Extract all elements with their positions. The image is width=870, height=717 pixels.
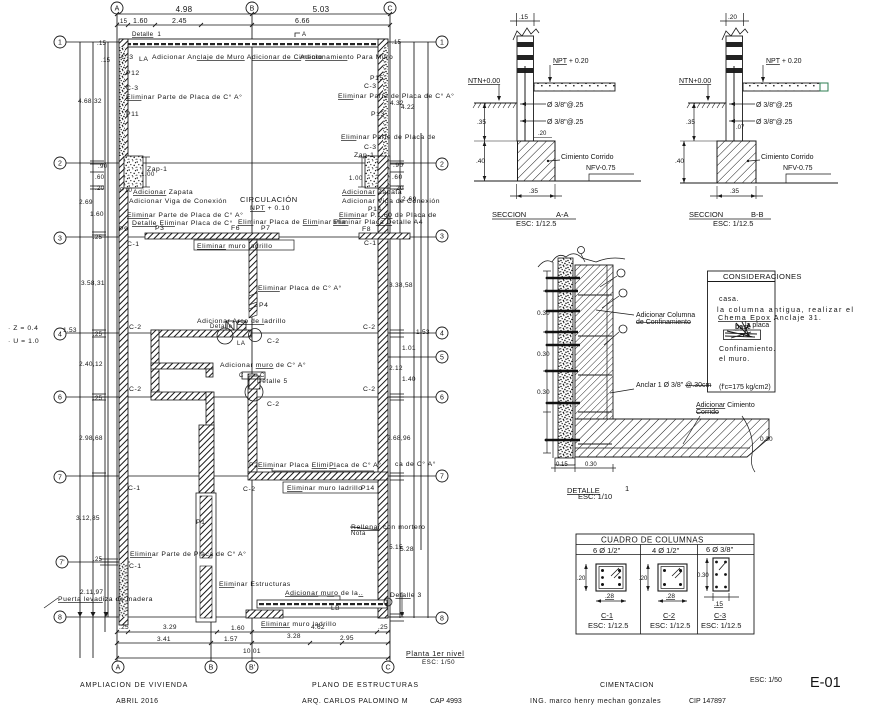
svg-text:Detalle 5: Detalle 5 (257, 378, 288, 385)
svg-text:.25: .25 (93, 332, 103, 338)
masonry bands (726, 42, 743, 47)
svg-text:3.38,58: 3.38,58 (389, 282, 413, 289)
svg-text:C-2: C-2 (129, 324, 142, 331)
svg-text:7: 7 (58, 475, 62, 482)
P1 inner hatch bottom (200, 566, 212, 618)
svg-text:Eliminar Placa ElimiPlaca de C: Eliminar Placa ElimiPlaca de C° A° (258, 461, 382, 469)
svg-text:Ø 3/8"@.25: Ø 3/8"@.25 (547, 102, 584, 109)
E-wall middle stub down (206, 369, 213, 377)
svg-text:2: 2 (440, 162, 444, 169)
svg-text:1: 1 (58, 40, 62, 47)
svg-text:6.66: 6.66 (295, 18, 310, 25)
grid line 4 (66, 332, 436, 334)
svg-text:Eliminar muro ladrillo: Eliminar muro ladrillo (287, 485, 363, 492)
svg-text:.07: .07 (736, 125, 745, 131)
dim tick cluster right grid7 (390, 473, 404, 480)
grid bubble 3 right (436, 230, 448, 242)
svg-text:NTN+0.00: NTN+0.00 (679, 78, 711, 85)
svg-text:C-1: C-1 (129, 563, 142, 570)
svg-text:LA: LA (139, 56, 148, 63)
dim .35 bottom (516, 184, 518, 199)
right dim chain vertical x430 (427, 42, 429, 618)
dark wall core top-right (383, 47, 388, 156)
svg-text:.20: .20 (95, 186, 105, 192)
E-wall left vertical (151, 330, 159, 398)
svg-text:5.03: 5.03 (313, 5, 330, 14)
grid bubble 7' left (56, 556, 68, 568)
leader line right of beam grid8 (401, 592, 403, 617)
svg-text:2.95: 2.95 (340, 635, 354, 642)
svg-text:.15: .15 (97, 41, 107, 47)
svg-text:0.15: 0.15 (556, 462, 568, 468)
svg-text:Eliminar muro ladrillo: Eliminar muro ladrillo (261, 621, 337, 628)
dim tick cluster right grid4 (390, 330, 404, 337)
E-wall bottom beam (151, 392, 213, 400)
svg-text:Detalle 1: Detalle 1 (132, 31, 161, 38)
rebar tie arrows (520, 103, 546, 105)
grid line 1 (66, 41, 436, 43)
svg-text:ESC: 1/50: ESC: 1/50 (422, 659, 455, 666)
svg-text:Adicionar Viga de Conexión: Adicionar Viga de Conexión (342, 198, 440, 205)
svg-text:.15: .15 (101, 58, 111, 64)
footing (518, 141, 556, 181)
slab green end (820, 83, 828, 91)
svg-text:0.30: 0.30 (585, 462, 597, 468)
svg-text:Adicionar Zapata: Adicionar Zapata (342, 189, 402, 196)
svg-text:3: 3 (58, 236, 62, 243)
ground wavy line top (538, 254, 625, 267)
bottom ground line (680, 182, 838, 184)
box around eliminar muro ladrillo grid3 (194, 240, 294, 250)
C-3 rect (713, 558, 729, 591)
grid line 6 (66, 396, 436, 398)
bottom ground line (474, 180, 641, 182)
svg-text:de Confinamiento: de Confinamiento (636, 319, 691, 326)
interior wall B upper (249, 239, 257, 310)
rebar end dots (545, 277, 549, 442)
grid bubble B top (246, 2, 258, 14)
dim ticks bottom rows (115, 630, 390, 660)
svg-text:Eliminar Placa de C° A°: Eliminar Placa de C° A° (258, 284, 342, 292)
grid line 7' left (68, 561, 130, 563)
grid bubble 1 left (54, 36, 66, 48)
svg-text:Cimiento Corrido: Cimiento Corrido (561, 154, 614, 161)
svg-text:.20: .20 (577, 576, 586, 582)
grid bubble 6 right (436, 391, 448, 403)
svg-text:casa.: casa. (719, 296, 739, 303)
svg-text:.60: .60 (392, 174, 403, 181)
svg-text:.20: .20 (538, 131, 547, 137)
dark wall core top-left (120, 47, 126, 156)
svg-text:P4: P4 (259, 302, 268, 309)
zapata Zap-1 right (stippled) (365, 156, 390, 188)
P1 column rect (196, 493, 216, 622)
dim .40 (683, 141, 685, 183)
grid bubble B' bottom (246, 661, 258, 673)
svg-text:CIP 147897: CIP 147897 (689, 698, 726, 705)
grid line 7 (66, 475, 436, 477)
svg-text:Eliminar Parte de Placa de C°: Eliminar Parte de Placa de C° A° (130, 550, 246, 558)
svg-text:1.60: 1.60 (133, 18, 148, 25)
bottom dim line row2 (117, 642, 390, 644)
slab (534, 83, 615, 91)
rebar bars (546, 278, 580, 440)
svg-text:Detalle 3: Detalle 3 (390, 592, 422, 599)
svg-text:Ø 3/8"@.25: Ø 3/8"@.25 (756, 102, 793, 109)
svg-text:Puerta levadiza de madera: Puerta levadiza de madera (58, 596, 153, 603)
svg-text:2.68,96: 2.68,96 (387, 435, 411, 442)
svg-text:C-2: C-2 (243, 486, 256, 493)
grid bubble 5 right (436, 351, 448, 363)
svg-text:6 Ø 1/2": 6 Ø 1/2" (593, 546, 621, 555)
svg-text:Nota: Nota (351, 531, 366, 537)
svg-text:2.40,12: 2.40,12 (79, 361, 103, 368)
interior wall B lower (248, 374, 257, 472)
svg-text:ESC: 1/12.5: ESC: 1/12.5 (516, 219, 556, 228)
dark wall overlay bottom-left (120, 563, 128, 617)
svg-text:3.58,31: 3.58,31 (81, 280, 105, 287)
C-2 dims (647, 564, 649, 591)
left outer wall (119, 39, 128, 625)
anchor lines in column (578, 295, 612, 444)
bottom dim line row1 (117, 631, 390, 633)
dim tick cluster left grid6 (92, 394, 106, 400)
wall over right zapata (378, 156, 388, 188)
svg-text:B': B' (249, 665, 255, 672)
P4 hatch marks (249, 293, 257, 318)
svg-text:4.68,32: 4.68,32 (78, 98, 102, 105)
door arc bottom left (44, 598, 58, 608)
svg-text:.35: .35 (686, 119, 695, 126)
svg-text:2.11,97: 2.11,97 (80, 589, 103, 596)
svg-text:ESC: 1/12.5: ESC: 1/12.5 (650, 621, 690, 630)
svg-text:C-1: C-1 (364, 240, 377, 247)
grid bubble 6 left (54, 391, 66, 403)
svg-text:ESC: 1/12.5: ESC: 1/12.5 (701, 621, 741, 630)
svg-text:LA: LA (237, 341, 245, 347)
svg-text:Adicionar Cimiento: Adicionar Cimiento (696, 402, 755, 409)
svg-text:1.60: 1.60 (90, 211, 104, 218)
right dim chain vertical x397 (399, 42, 401, 618)
svg-text:ESC: 1/10: ESC: 1/10 (578, 492, 612, 501)
grid bubble labels (58, 6, 444, 672)
existing wall stipple (558, 258, 573, 458)
svg-text:ABRIL 2016: ABRIL 2016 (116, 698, 159, 705)
svg-text:4: 4 (440, 331, 444, 338)
grid bubble 7 right (436, 470, 448, 482)
grid bubble A bottom (112, 661, 124, 673)
svg-text:̰b̰a̰s̰e: ̰b̰a̰s̰e (733, 324, 751, 331)
svg-text:Eliminar Parte de Placa de: Eliminar Parte de Placa de (341, 134, 436, 141)
svg-text:Cimiento Corrido: Cimiento Corrido (761, 154, 814, 161)
svg-text:Detalle Eliminar Placa de C°: Detalle Eliminar Placa de C° (132, 219, 233, 227)
svg-text:.35: .35 (730, 188, 739, 195)
svg-text:3.28: 3.28 (287, 633, 301, 640)
svg-text:3.41: 3.41 (157, 636, 171, 643)
dim ticks top rows (115, 12, 392, 27)
svg-text:ESC: 1/12.5: ESC: 1/12.5 (588, 621, 628, 630)
svg-text:· Z = 0.4: · Z = 0.4 (8, 325, 38, 332)
svg-text:.28: .28 (666, 593, 675, 600)
grid bubble 1 right (436, 36, 448, 48)
svg-text:Rellenar con mortero: Rellenar con mortero (351, 524, 425, 531)
svg-text:5: 5 (440, 355, 444, 362)
svg-text:ING. marco henry mechan gonzal: ING. marco henry mechan gonzales (530, 698, 661, 705)
svg-text:Adicionar muro de la..: Adicionar muro de la.. (285, 590, 363, 597)
svg-text:.15: .15 (392, 40, 402, 46)
wall break squiggle (722, 28, 748, 40)
rebar line in wall (733, 66, 735, 160)
svg-text:B: B (250, 6, 255, 13)
svg-text:Eliminar P.1.60 de Placa de: Eliminar P.1.60 de Placa de (339, 212, 437, 219)
svg-text:1.01: 1.01 (402, 345, 416, 352)
svg-text:P3: P3 (155, 225, 164, 232)
svg-text:F8: F8 (362, 226, 371, 233)
svg-text:.90: .90 (393, 162, 404, 169)
footing L hatched (575, 419, 769, 457)
box around eliminar muro grid7 (283, 482, 378, 493)
interior wall B' vertical lower wide part (199, 425, 214, 493)
svg-text:C-3: C-3 (714, 611, 726, 620)
svg-text:Chema Epox Anclaje 31.: Chema Epox Anclaje 31. (718, 313, 822, 322)
grid bubble 7 left (54, 471, 66, 483)
grid line A vertical (116, 14, 118, 661)
svg-text:E-01: E-01 (810, 675, 841, 691)
svg-text:6: 6 (58, 395, 62, 402)
svg-text:1.00: 1.00 (349, 176, 363, 182)
svg-text:CAP 4993: CAP 4993 (430, 698, 462, 705)
top dim line row2 (117, 24, 390, 26)
grid bubble 3 left (54, 232, 66, 244)
C-1 dims (585, 564, 587, 591)
svg-text:SECCION: SECCION (689, 210, 723, 219)
right outer wall (378, 39, 388, 618)
detail circle cluster at detalle5 (242, 372, 265, 401)
svg-text:Adicionar muro de C° A°: Adicionar muro de C° A° (220, 361, 306, 369)
svg-text:NPT + 0.10: NPT + 0.10 (250, 205, 290, 212)
beam grid3 left segment (145, 233, 279, 239)
svg-text:.25: .25 (93, 557, 103, 563)
bottom dim 0.15 0.30 (551, 467, 616, 469)
svg-text:10,01: 10,01 (243, 648, 261, 655)
right dim chain vertical x421 (420, 133, 422, 550)
svg-text:ESC: 1/50: ESC: 1/50 (750, 677, 782, 684)
svg-text:.40: .40 (675, 158, 684, 165)
svg-text:.28: .28 (605, 593, 614, 600)
svg-text:F6: F6 (231, 225, 240, 232)
zapata Zap-1 left (stippled) (124, 156, 143, 188)
svg-text:C-2: C-2 (363, 386, 376, 393)
svg-text:4: 4 (58, 332, 62, 339)
svg-text:Ø 3/8"@.25: Ø 3/8"@.25 (547, 119, 584, 126)
svg-text:LB: LB (331, 605, 340, 612)
svg-text:AMPLIACION DE VIVIENDA: AMPLIACION DE VIVIENDA (80, 682, 188, 689)
dim tick cluster left grid3 (92, 232, 106, 235)
grid line C vertical (389, 14, 391, 661)
rebar tie arrows (729, 103, 755, 105)
dim tick cluster right grid8 (390, 614, 404, 621)
svg-text:1.53: 1.53 (63, 327, 77, 334)
svg-text:Adicionar Anclaje de Muro Adic: Adicionar Anclaje de Muro Adicionar de C… (152, 54, 323, 61)
beam hatched small grid8 (246, 610, 283, 618)
dim tick cluster 7' (100, 559, 118, 565)
svg-text:1.60: 1.60 (231, 625, 245, 632)
dim tick cluster right grid6 (390, 394, 404, 400)
svg-text:.20: .20 (728, 14, 737, 21)
bottom dim line row3 (117, 657, 390, 659)
left dim chain vertical x105 (104, 42, 106, 632)
top dim line row1 (117, 13, 390, 15)
grid line 3 (66, 236, 436, 238)
svg-text:P14: P14 (361, 485, 375, 492)
right dim chain vertical x411 (413, 42, 415, 618)
svg-text:8: 8 (440, 616, 444, 623)
beam near grid8 (dashed) (257, 600, 387, 608)
svg-text:C: C (385, 665, 390, 672)
grid bubble C top (384, 2, 396, 14)
svg-text:P13: P13 (371, 111, 385, 118)
svg-text:.15: .15 (714, 601, 723, 608)
svg-text:.40: .40 (476, 158, 485, 165)
left dim chain vertical x108 (107, 42, 109, 617)
dim tick cluster left zapata (90, 161, 104, 189)
svg-text:P9: P9 (119, 226, 128, 233)
zapata left dim line 1.00 (142, 157, 150, 187)
dim .35 bottom (716, 186, 718, 199)
interior wall B' vertical lower (206, 392, 214, 432)
left dim chain 0.30s (546, 271, 548, 453)
svg-text:0.30: 0.30 (537, 351, 550, 358)
svg-text:8: 8 (58, 615, 62, 622)
svg-text:Eliminar Parte de Placa de C°: Eliminar Parte de Placa de C° A° (126, 93, 242, 101)
wall base rect (555, 458, 575, 465)
dim .20 top (720, 13, 749, 26)
slab (743, 83, 820, 91)
dim tick cluster left grid4 (92, 330, 106, 337)
svg-text:1.40: 1.40 (402, 376, 416, 383)
svg-text:C-2: C-2 (363, 324, 376, 331)
svg-text:C-1: C-1 (128, 485, 141, 492)
svg-text:Eliminar Placa Detalle A4: Eliminar Placa Detalle A4 (333, 219, 423, 226)
C-2 square (658, 564, 687, 591)
svg-text:3.12,85: 3.12,85 (76, 515, 100, 522)
detail circle cluster at grid4-B (217, 321, 262, 344)
svg-text:NFV-0.75: NFV-0.75 (783, 165, 813, 172)
svg-text:Eliminar Parte de Placa de C°: Eliminar Parte de Placa de C° A° (127, 211, 243, 219)
svg-text:C-3: C-3 (364, 144, 377, 151)
svg-text:(f'c=175 kg/cm2): (f'c=175 kg/cm2) (719, 384, 771, 391)
C-1 square (596, 564, 626, 591)
svg-text:1.00: 1.00 (141, 172, 155, 178)
svg-text:3.29: 3.29 (163, 624, 177, 631)
svg-text:ESC: 1/12.5: ESC: 1/12.5 (713, 219, 753, 228)
svg-text:Adicionamiento Para Muro: Adicionamiento Para Muro (300, 54, 393, 61)
svg-text:2.69: 2.69 (79, 199, 93, 206)
svg-text:Anclar 1 Ø 3/8" @.30cm: Anclar 1 Ø 3/8" @.30cm (636, 382, 712, 389)
svg-text:Adicionar Zapata: Adicionar Zapata (133, 189, 193, 196)
svg-text:A: A (115, 6, 120, 13)
svg-text:B-B: B-B (751, 210, 764, 219)
grid bubble 2 right (436, 158, 448, 170)
svg-text:2.45: 2.45 (172, 18, 187, 25)
svg-text:.35: .35 (477, 119, 486, 126)
E-wall middle beam (151, 363, 213, 369)
callout circles 1 2 3 (617, 269, 625, 277)
beam grid3 right segment (359, 233, 410, 239)
svg-text:P7: P7 (261, 225, 270, 232)
svg-text:Planta 1er nivel: Planta 1er nivel (406, 649, 464, 658)
svg-text:.25: .25 (93, 235, 103, 241)
grid bubble A top (54, 2, 448, 673)
svg-text:CIRCULACIÓN: CIRCULACIÓN (240, 195, 298, 204)
svg-text:6: 6 (440, 395, 444, 402)
ground line + hatch (474, 102, 517, 104)
svg-text:Eliminar muro ladrillo: Eliminar muro ladrillo (197, 243, 273, 250)
svg-text:Corrido: Corrido (696, 409, 719, 416)
svg-text:Eliminar Estructuras: Eliminar Estructuras (219, 581, 291, 588)
svg-text:CIMENTACION: CIMENTACION (600, 682, 654, 689)
svg-text:ca de C° A°: ca de C° A° (395, 460, 436, 468)
zapata right dim line 1.00 (358, 157, 366, 187)
svg-text:A: A (302, 32, 306, 38)
grid line B' vertical (210, 392, 212, 661)
svg-text:Detalle: Detalle (210, 324, 233, 330)
svg-text:C-1: C-1 (601, 611, 613, 620)
top callout circle (578, 247, 585, 254)
grid line 8 (66, 616, 436, 618)
svg-text:el muro.: el muro. (719, 356, 750, 363)
left dim chain vertical x80 (79, 42, 81, 658)
svg-text:P1: P1 (196, 519, 205, 526)
left dim chain vertical x93 (92, 42, 94, 658)
svg-text:.25: .25 (93, 396, 103, 402)
grid bubble 4 left (54, 328, 66, 340)
svg-text:2: 2 (58, 161, 62, 168)
footing (717, 141, 756, 183)
grid bubble 8 right (436, 612, 448, 624)
svg-text:C-3: C-3 (121, 54, 134, 61)
svg-text:C-2: C-2 (663, 611, 675, 620)
grid line 5 right (384, 356, 436, 358)
svg-text:0.30: 0.30 (697, 573, 709, 579)
svg-text:3: 3 (440, 234, 444, 241)
grid bubble 8 left (54, 611, 66, 623)
P1 inner hatch top (200, 496, 212, 558)
svg-text:Adicionar Columna: Adicionar Columna (636, 312, 695, 319)
svg-text:C: C (239, 373, 244, 379)
svg-text:C: C (387, 6, 392, 13)
detalle3 circle on wall (384, 598, 392, 606)
grid bubble 4 right (436, 327, 448, 339)
grid line B vertical (251, 14, 253, 661)
svg-text:C-3: C-3 (364, 83, 377, 90)
svg-text:.90: .90 (98, 164, 108, 170)
rebar line in wall (524, 66, 526, 160)
column hatched (575, 265, 613, 419)
dim .35 (693, 103, 695, 141)
svg-text:Eliminar Placa de Eliminar Pla: Eliminar Placa de Eliminar Pla (238, 219, 346, 226)
rellenar leader (350, 527, 380, 530)
svg-text:P10: P10 (120, 188, 132, 194)
svg-text:2.98,68: 2.98,68 (79, 435, 103, 442)
svg-text:1.53: 1.53 (416, 329, 430, 336)
svg-text:A: A (116, 665, 121, 672)
svg-text:0.30: 0.30 (537, 310, 550, 317)
svg-text:.25: .25 (378, 624, 388, 631)
beam grid7 (248, 472, 388, 480)
svg-text:.60: .60 (95, 175, 105, 181)
svg-text:7': 7' (59, 560, 64, 567)
